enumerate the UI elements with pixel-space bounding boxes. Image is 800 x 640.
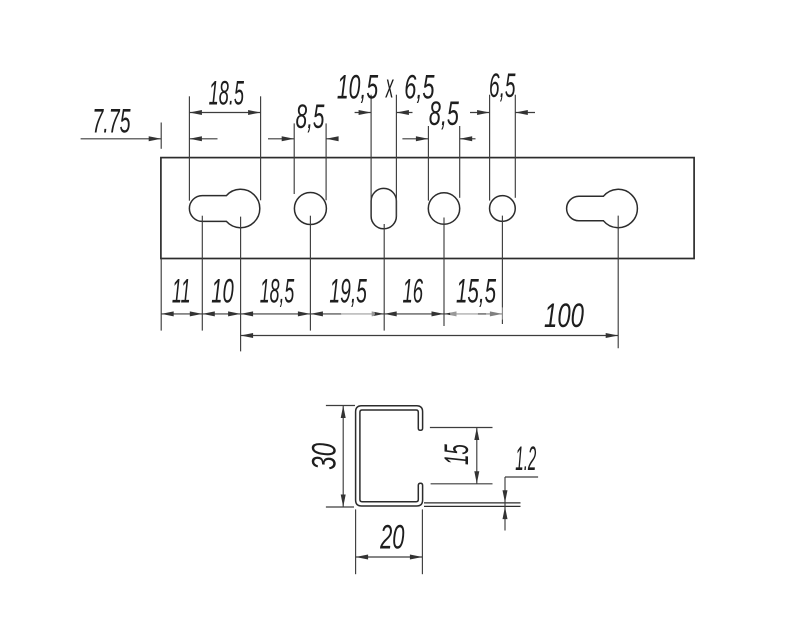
svg-text:19,5: 19,5 xyxy=(329,273,367,311)
svg-text:100: 100 xyxy=(544,297,584,335)
svg-text:11: 11 xyxy=(172,272,191,310)
svg-text:7.75: 7.75 xyxy=(92,102,130,140)
svg-text:8,5: 8,5 xyxy=(429,95,459,133)
svg-text:1.2: 1.2 xyxy=(515,440,536,478)
svg-text:15,5: 15,5 xyxy=(456,273,496,311)
svg-text:30: 30 xyxy=(306,443,344,470)
svg-text:16: 16 xyxy=(403,273,424,311)
svg-text:8,5: 8,5 xyxy=(296,98,325,136)
svg-text:10: 10 xyxy=(211,272,234,310)
svg-text:18,5: 18,5 xyxy=(260,272,295,310)
svg-text:20: 20 xyxy=(379,519,404,557)
svg-text:10,5: 10,5 xyxy=(337,69,378,107)
svg-text:6,5: 6,5 xyxy=(489,67,516,105)
svg-text:x: x xyxy=(385,67,394,105)
svg-text:15: 15 xyxy=(438,444,476,465)
svg-text:18.5: 18.5 xyxy=(209,74,244,112)
